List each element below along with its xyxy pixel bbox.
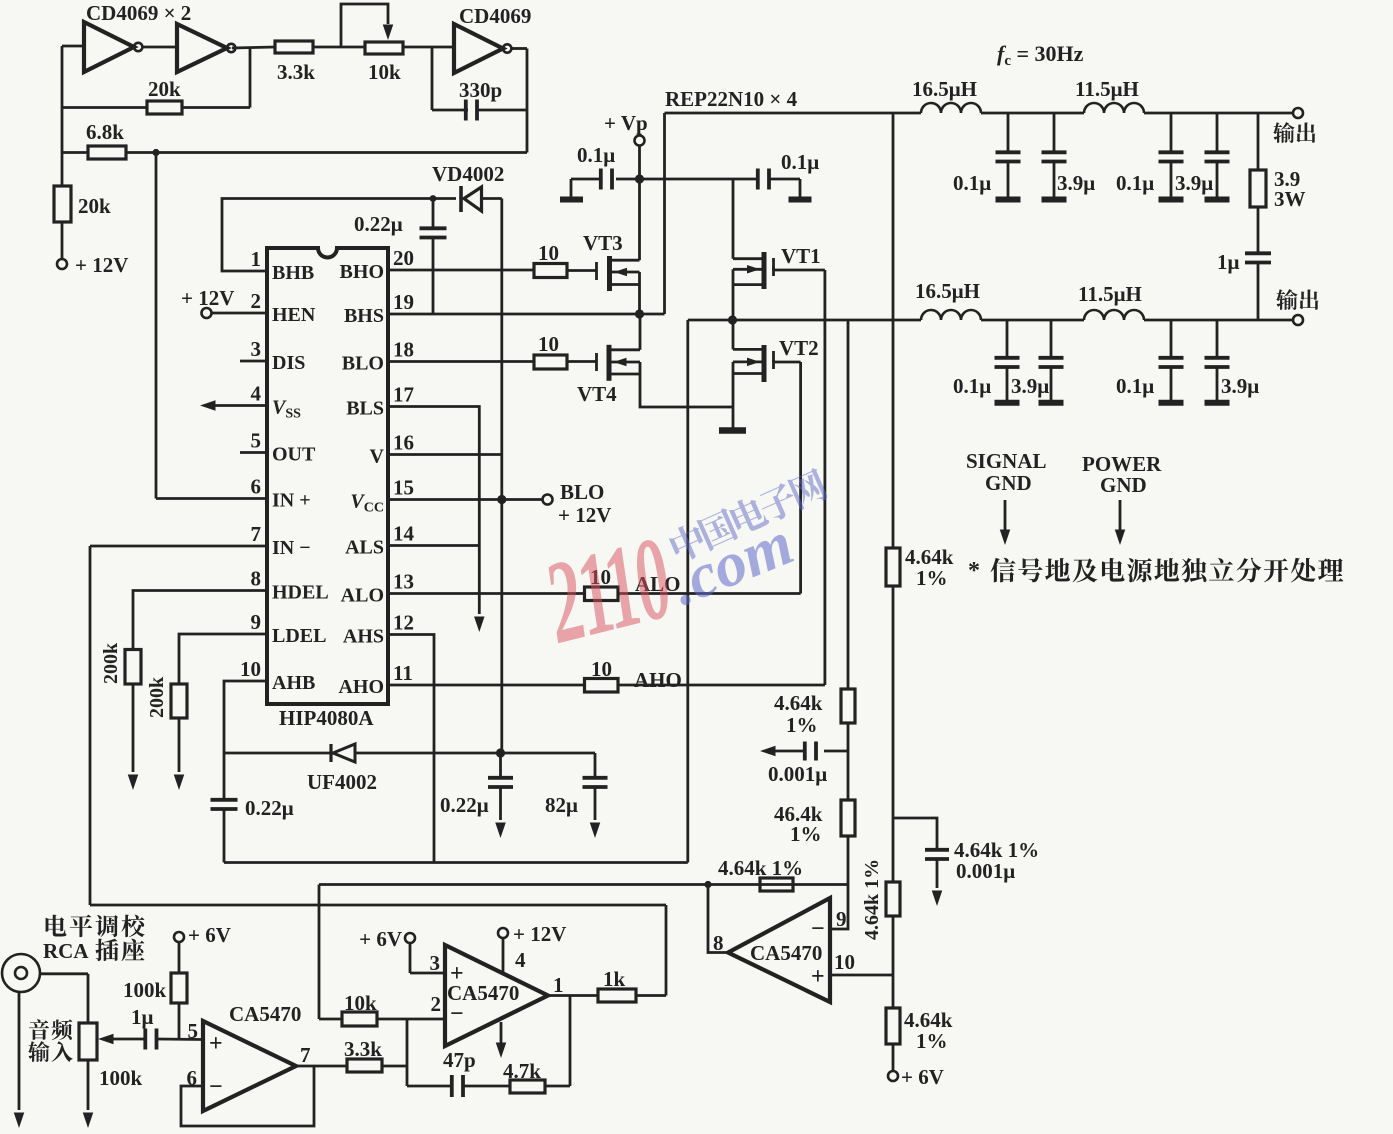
svg-text:3W: 3W <box>1274 187 1306 211</box>
svg-text:V: V <box>370 446 385 468</box>
svg-text:−: − <box>209 1074 223 1100</box>
svg-text:0.1μ: 0.1μ <box>1116 374 1154 398</box>
svg-text:+ 6V: + 6V <box>901 1065 944 1089</box>
wire 4.7k up <box>545 1085 570 1088</box>
wire osc to IN+ <box>155 153 158 499</box>
svg-text:47p: 47p <box>443 1048 476 1072</box>
svg-text:−: − <box>450 1001 464 1027</box>
potentiometer 100k input <box>79 1023 97 1060</box>
svg-text:BHO: BHO <box>340 261 384 283</box>
resistor 10 ALO <box>585 587 619 601</box>
wire pin9 input <box>830 836 848 929</box>
terminal +12V <box>57 259 67 269</box>
arrow pot wiper <box>104 1038 146 1041</box>
svg-text:1k: 1k <box>603 967 626 991</box>
capacitor 3.9μ bottom filter <box>1216 320 1219 356</box>
wire to +6V <box>892 1044 895 1072</box>
wire pin8 HDEL <box>133 591 267 650</box>
ground VT2 VT4 source <box>719 427 746 434</box>
wire pin20 BHO <box>388 269 534 272</box>
svg-text:3.9μ: 3.9μ <box>1221 374 1259 398</box>
transistor VT2 <box>762 345 767 382</box>
svg-text:CA5470: CA5470 <box>750 941 822 965</box>
svg-text:20k: 20k <box>78 194 111 218</box>
svg-text:4: 4 <box>251 382 262 406</box>
svg-text:GND: GND <box>1100 473 1147 497</box>
resistor 100k bias <box>174 932 184 942</box>
svg-text:10: 10 <box>834 950 855 974</box>
terminal +Vp <box>635 136 645 146</box>
watermark zhongguo dianziwang blue <box>666 466 830 564</box>
wire pin18 BLO <box>388 360 534 363</box>
svg-text:0.1μ: 0.1μ <box>953 374 991 398</box>
resistor 4.64k 1% upper <box>886 548 900 586</box>
svg-text:VD4002: VD4002 <box>432 162 504 186</box>
arrow 10k wiper <box>383 25 394 41</box>
terminal +6V op2 <box>405 933 415 943</box>
svg-text:0.22μ: 0.22μ <box>440 793 489 817</box>
wire 200k LDEL down <box>178 718 181 772</box>
svg-text:CD4069: CD4069 <box>459 4 531 28</box>
svg-text:16.5μH: 16.5μH <box>915 279 980 303</box>
svg-text:10: 10 <box>538 332 559 356</box>
transistor VT1 <box>762 252 767 289</box>
svg-text:RCA: RCA <box>43 939 89 963</box>
capacitor 0.22u AHB <box>223 753 226 798</box>
resistor 10 AHO <box>585 679 619 693</box>
svg-text:5: 5 <box>251 429 262 453</box>
svg-text:OUT: OUT <box>272 444 316 466</box>
arrow 0.001u gnd <box>932 891 943 907</box>
wire jack shell down <box>18 992 21 1110</box>
svg-text:4.7k: 4.7k <box>503 1059 541 1083</box>
terminal HEN +12V <box>202 308 212 318</box>
svg-text:1%: 1% <box>916 1029 948 1053</box>
capacitor 0.22u bootstrap B <box>432 199 435 227</box>
wire top filter mid <box>981 112 1084 115</box>
capacitor 0.1u decoupling right <box>733 178 759 181</box>
node osc out junction <box>152 149 159 156</box>
svg-text:AHB: AHB <box>272 672 315 694</box>
wire 200k down <box>132 684 135 772</box>
wire VT1 gate <box>772 267 775 270</box>
svg-text:6.8k: 6.8k <box>86 120 124 144</box>
svg-text:0.22μ: 0.22μ <box>245 796 294 820</box>
wire 4.64k to node A <box>847 320 850 689</box>
capacitor 0.22u Vcc <box>499 753 502 776</box>
arrow 0.001u left <box>760 746 776 757</box>
wire pin14 ALS <box>388 544 479 547</box>
svg-text:18: 18 <box>393 338 414 362</box>
wire pin10 AHB <box>224 681 267 753</box>
wire VT1 source down <box>732 269 735 320</box>
inverter U2A <box>84 22 134 72</box>
wire AHS rail <box>224 861 688 864</box>
wire pin13 ALO <box>388 592 585 595</box>
wire VT4 drain up <box>639 314 642 350</box>
wire inv input left <box>62 45 84 48</box>
svg-text:IN +: IN + <box>272 490 311 512</box>
wire cap to op1 <box>158 1038 204 1041</box>
svg-text:1%: 1% <box>790 822 822 846</box>
arrow pot gnd <box>83 1113 94 1129</box>
svg-text:ALO: ALO <box>341 585 384 607</box>
wire inv3 out <box>513 47 528 50</box>
wire inv1 to inv2 <box>143 46 177 49</box>
svg-text:ALS: ALS <box>345 537 384 559</box>
svg-text:3.9μ: 3.9μ <box>1011 374 1049 398</box>
stub pin3 DIS <box>240 360 267 363</box>
svg-text:19: 19 <box>393 290 414 314</box>
inverter U2C <box>454 24 503 73</box>
wire 1k to IN- line <box>636 994 666 997</box>
label output bottom <box>1276 289 1318 310</box>
resistor 1k <box>598 989 636 1002</box>
inductor 16.5uH top <box>921 103 981 113</box>
svg-text:GND: GND <box>985 471 1032 495</box>
wire VT1 drain up <box>732 179 735 259</box>
wire Vcc vertical <box>500 199 503 754</box>
RCA jack <box>2 954 40 992</box>
wire VT2 source down <box>732 362 735 429</box>
svg-text:BLO: BLO <box>560 480 604 504</box>
node op3 out <box>704 881 711 888</box>
resistor 10 BLO <box>534 355 567 369</box>
svg-text:+: + <box>811 964 825 990</box>
svg-text:3.9μ: 3.9μ <box>1057 171 1095 195</box>
resistor 20k feedback <box>249 47 252 108</box>
resistor 20k to +12V <box>54 186 71 222</box>
svg-text:20: 20 <box>393 246 414 270</box>
svg-text:BHB: BHB <box>272 262 314 284</box>
svg-text:5: 5 <box>188 1019 199 1043</box>
svg-text:IN −: IN − <box>272 537 311 559</box>
svg-text:14: 14 <box>393 522 415 546</box>
wire 47p to 4.7k <box>464 1085 510 1088</box>
wire bottom filter right <box>1144 319 1294 322</box>
resistor 10 BHO <box>534 264 567 278</box>
wire pin4 VSS arrow <box>214 404 267 407</box>
svg-text:1: 1 <box>251 247 262 271</box>
resistor 4.64k 1% feedback <box>760 878 793 891</box>
wire 10k to op2 <box>377 1018 445 1021</box>
svg-text:+ Vp: + Vp <box>604 111 648 135</box>
arrow signal gnd <box>1004 500 1007 532</box>
capacitor 3.9μ bottom filter <box>1050 320 1053 356</box>
wire to VT4 gate <box>567 360 596 363</box>
wire bottom filter mid <box>981 319 1084 322</box>
svg-text:1μ: 1μ <box>131 1005 154 1029</box>
wire Vp to VT1 drain rail <box>640 178 733 181</box>
wire pin10 to divider <box>830 974 893 977</box>
node Vp <box>635 174 644 183</box>
svg-text:AHO: AHO <box>634 668 682 692</box>
svg-text:11: 11 <box>393 661 413 685</box>
svg-text:AHS: AHS <box>343 626 384 648</box>
svg-text:3: 3 <box>251 337 262 361</box>
arrow 0.22u gnd <box>495 823 506 839</box>
wire diode to caps <box>355 752 595 755</box>
svg-text:HDEL: HDEL <box>272 582 329 604</box>
wire op1 out <box>296 1065 347 1068</box>
svg-text:+ 6V: + 6V <box>359 927 402 951</box>
svg-text:10k: 10k <box>344 991 377 1015</box>
wire 46.4k up <box>847 751 850 800</box>
svg-text:10: 10 <box>240 657 261 681</box>
svg-text:330p: 330p <box>459 78 502 102</box>
resistor 4.64k 1% lower <box>886 1008 900 1044</box>
arrow 200k LDEL gnd <box>174 775 185 791</box>
capacitor 82u <box>594 753 597 776</box>
transistor VT3 <box>595 262 598 280</box>
stub pin5 OUT <box>240 451 267 454</box>
node B junction <box>635 309 644 318</box>
capacitor 0.1u decoupling left <box>616 178 640 181</box>
potentiometer 10k <box>365 42 403 54</box>
svg-text:+ 12V: + 12V <box>181 286 234 310</box>
svg-text:2: 2 <box>431 992 442 1016</box>
capacitor 0.1μ top filter <box>1170 113 1173 151</box>
svg-text:4: 4 <box>515 948 526 972</box>
svg-text:0.1μ: 0.1μ <box>953 171 991 195</box>
wire pin11 AHO <box>388 684 585 687</box>
resistor 10k op2 <box>319 1018 342 1021</box>
svg-text:16: 16 <box>393 431 414 455</box>
svg-text:0.1μ: 0.1μ <box>577 143 615 167</box>
label output top <box>1273 122 1315 143</box>
resistor 200k HDEL <box>125 650 141 685</box>
wire inv2 out <box>232 47 275 48</box>
svg-text:VT3: VT3 <box>583 231 623 255</box>
svg-text:CA5470: CA5470 <box>229 1002 301 1026</box>
inverter U2B <box>177 24 227 72</box>
svg-text:0.001μ: 0.001μ <box>768 762 827 786</box>
svg-text:1: 1 <box>553 973 564 997</box>
svg-text:0.001μ: 0.001μ <box>956 859 1015 883</box>
svg-text:3.9μ: 3.9μ <box>1175 171 1213 195</box>
svg-text:7: 7 <box>251 522 262 546</box>
wire diode to Vcc line <box>482 197 502 200</box>
wire ALO to VT2 gate <box>618 592 801 595</box>
capacitor 47p <box>450 1075 454 1097</box>
node bootstrap <box>430 195 437 202</box>
wire pin12 AHS down <box>388 635 434 863</box>
wire BHS node B line <box>388 313 665 316</box>
resistor 3.3k op1 <box>347 1059 382 1072</box>
svg-text:11.5μH: 11.5μH <box>1078 282 1142 306</box>
wire VT3 drain up <box>638 179 641 260</box>
capacitor 0.1μ top filter <box>1007 113 1010 151</box>
op-amp U3A CA5470 <box>203 1021 296 1111</box>
resistor 3.9 3W <box>1257 113 1260 170</box>
svg-text:DIS: DIS <box>272 352 305 374</box>
svg-text:+: + <box>209 1031 223 1057</box>
wire AHO to VT1 gate <box>618 684 825 687</box>
resistor 4.64k 1% mid <box>886 882 900 916</box>
ground left 0.1u <box>560 197 583 203</box>
svg-text:200k: 200k <box>100 642 122 684</box>
arrow jack gnd <box>14 1113 25 1129</box>
terminal +12V op2 <box>498 928 508 938</box>
wire feedback mid <box>892 586 895 882</box>
svg-text:BLS: BLS <box>346 398 384 420</box>
svg-text:15: 15 <box>393 476 414 500</box>
wire node B up to rail <box>663 113 666 314</box>
inductor 11.5uH top <box>1084 103 1144 113</box>
svg-text:7: 7 <box>300 1043 311 1067</box>
wire 10k to inv3 <box>403 46 454 49</box>
capacitor 1u <box>1245 251 1271 255</box>
svg-text:SIGNAL: SIGNAL <box>966 449 1047 473</box>
svg-text:AHO: AHO <box>338 676 384 698</box>
wire VT2 drain up <box>732 320 735 349</box>
node A junction <box>728 315 737 324</box>
svg-text:1%: 1% <box>786 713 818 737</box>
svg-text:6: 6 <box>251 475 262 499</box>
svg-text:4.64k: 4.64k <box>774 691 823 715</box>
wire 3.3k to node <box>382 1065 407 1068</box>
terminal output bottom <box>1293 315 1303 325</box>
svg-text:100k: 100k <box>99 1066 143 1090</box>
svg-text:10k: 10k <box>368 60 401 84</box>
svg-text:0.1μ: 0.1μ <box>1116 171 1154 195</box>
svg-text:8: 8 <box>251 567 262 591</box>
svg-text:REP22N10 × 4: REP22N10 × 4 <box>665 87 798 111</box>
svg-text:11.5μH: 11.5μH <box>1075 77 1139 101</box>
wire VT3 source down <box>638 272 641 314</box>
wire feedback tap from rail <box>892 113 895 548</box>
svg-text:9: 9 <box>836 907 847 931</box>
svg-text:UF4002: UF4002 <box>307 770 377 794</box>
terminal output top <box>1293 108 1303 118</box>
wire pin16 V <box>388 453 502 456</box>
svg-text:4.64k 1%: 4.64k 1% <box>718 856 803 880</box>
svg-text:*: * <box>968 558 980 584</box>
node Vcc cap junction <box>496 748 505 757</box>
wire top output rail <box>665 112 922 115</box>
watermark com blue <box>661 508 802 619</box>
svg-text:20k: 20k <box>148 77 181 101</box>
svg-text:10: 10 <box>538 241 559 265</box>
wire feedback to 10k <box>318 885 321 1020</box>
wire op1 feedback <box>181 1066 314 1126</box>
capacitor 3.9μ top filter <box>1053 113 1056 151</box>
svg-text:1μ: 1μ <box>1217 250 1240 274</box>
arrow 200k gnd <box>128 775 139 791</box>
wire top filter right <box>1144 112 1294 115</box>
svg-text:17: 17 <box>393 383 414 407</box>
wire feedback to pin10 node <box>892 916 895 1008</box>
svg-text:+ 12V: + 12V <box>75 253 128 277</box>
wire left rail <box>61 46 64 186</box>
wire feedback line <box>319 883 848 886</box>
capacitor 0.001u left <box>824 750 848 753</box>
ground right 0.1u <box>789 197 812 203</box>
resistor 6.8k <box>62 151 88 154</box>
svg-text:4.64k 1%: 4.64k 1% <box>861 859 883 940</box>
terminal BLO +12V <box>543 495 553 505</box>
wire 10k wiper loop <box>341 4 388 47</box>
terminal +6V right <box>888 1071 898 1081</box>
diode VD4002 <box>459 186 463 212</box>
arrow power gnd <box>1119 500 1122 532</box>
wire pin15 Vcc <box>388 498 543 501</box>
svg-text:16.5μH: 16.5μH <box>912 77 977 101</box>
svg-text:200k: 200k <box>146 676 168 718</box>
arrow op2 gnd <box>500 1022 503 1046</box>
svg-text:100k: 100k <box>123 978 167 1002</box>
svg-text:BLO: BLO <box>342 353 384 375</box>
svg-text:9: 9 <box>251 610 262 634</box>
op-amp U1 HIP4080A body <box>267 248 388 704</box>
resistor 46.4k 1% <box>841 800 855 836</box>
wire +12V to pin4 <box>502 937 505 974</box>
svg-text:3: 3 <box>430 951 441 975</box>
wire inv3 out down <box>526 49 529 153</box>
svg-text:2: 2 <box>251 289 262 313</box>
capacitor 0.001u right <box>893 818 937 848</box>
svg-text:13: 13 <box>393 570 414 594</box>
svg-text:VT4: VT4 <box>577 382 617 406</box>
svg-text:HIP4080A: HIP4080A <box>279 706 374 730</box>
wire pin7 IN- run <box>90 545 267 548</box>
wire op2 out <box>548 994 598 997</box>
arrow BLS signal gnd <box>474 617 485 633</box>
svg-text:+ 12V: + 12V <box>513 922 566 946</box>
wire 3.3k to 10k <box>313 46 365 49</box>
wire VT2 gate <box>772 360 775 362</box>
svg-text:HEN: HEN <box>272 304 316 326</box>
svg-text:+: + <box>450 961 464 987</box>
svg-text:0.1μ: 0.1μ <box>781 150 819 174</box>
svg-text:VT2: VT2 <box>779 336 819 360</box>
svg-text:+ 6V: + 6V <box>188 923 231 947</box>
svg-text:3.3k: 3.3k <box>277 60 315 84</box>
op-amp U3B CA5470 <box>445 945 548 1046</box>
label audio input <box>29 1019 72 1040</box>
resistor 4.7k <box>510 1080 545 1093</box>
wire +6V to pin3 <box>409 942 412 973</box>
resistor 4.64k 1% top A <box>841 689 855 723</box>
capacitor 0.1μ bottom filter <box>1170 320 1173 356</box>
transistor VT4 <box>595 353 598 371</box>
svg-text:BHS: BHS <box>344 305 384 327</box>
svg-text:12: 12 <box>393 611 414 635</box>
wire pin1 BHB to bootstrap <box>222 199 456 272</box>
svg-text:3.3k: 3.3k <box>344 1037 382 1061</box>
capacitor 0.1μ bottom filter <box>1006 320 1009 356</box>
svg-text:0.22μ: 0.22μ <box>354 212 403 236</box>
wire op3 output <box>708 885 728 953</box>
op-amp U3C CA5470 <box>728 898 830 1002</box>
node Vcc <box>497 495 506 504</box>
wire Vp down <box>638 145 641 179</box>
svg-text:1%: 1% <box>916 566 948 590</box>
wire node A down <box>686 320 689 863</box>
wire pot down <box>87 1060 90 1110</box>
diode UF4002 <box>224 752 331 755</box>
capacitor 3.9μ top filter <box>1216 113 1219 151</box>
wire to VT3 gate <box>567 269 596 272</box>
resistor 3.3k <box>275 41 313 53</box>
svg-text:−: − <box>811 916 825 942</box>
capacitor 330p <box>431 48 434 110</box>
resistor 200k LDEL <box>171 684 187 718</box>
svg-text:VT1: VT1 <box>781 244 821 268</box>
inductor 16.5uH bottom <box>921 310 981 320</box>
wire node A line <box>688 319 921 322</box>
wire op2 feedback <box>407 1085 450 1088</box>
